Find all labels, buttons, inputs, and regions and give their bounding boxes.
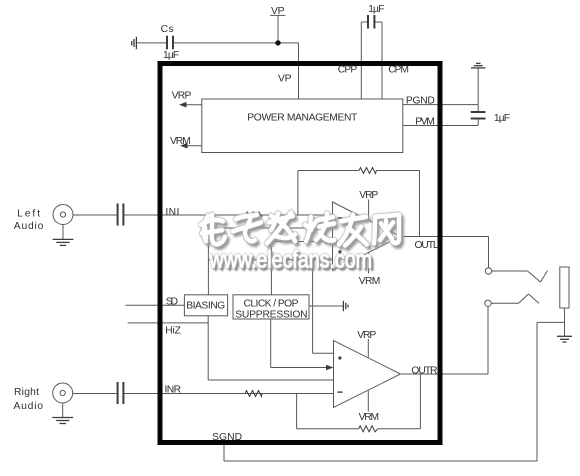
svg-text:Audio: Audio [14, 221, 44, 232]
svg-text:1µF: 1µF [368, 4, 384, 15]
svg-text:1µF: 1µF [494, 113, 510, 124]
svg-text:SUPPRESSION: SUPPRESSION [235, 309, 307, 320]
svg-text:VRM: VRM [170, 136, 191, 147]
svg-text:Right: Right [14, 387, 39, 398]
svg-text:www.elecfans.com: www.elecfans.com [209, 247, 372, 274]
svg-text:SD: SD [166, 297, 178, 308]
svg-text:PGND: PGND [406, 96, 435, 107]
svg-text:CPM: CPM [388, 64, 409, 75]
svg-text:OUTL: OUTL [415, 240, 439, 251]
svg-text:Audio: Audio [14, 401, 44, 412]
svg-text:VRM: VRM [359, 412, 380, 423]
svg-text:1µF: 1µF [163, 50, 179, 61]
svg-text:BIASING: BIASING [186, 301, 225, 312]
svg-text:POWER MANAGEMENT: POWER MANAGEMENT [247, 113, 358, 124]
svg-text:VP: VP [271, 6, 285, 17]
svg-text:CPP: CPP [338, 64, 358, 75]
svg-text:VRP: VRP [357, 330, 376, 341]
svg-text:INI: INI [165, 207, 179, 218]
svg-text:CLICK / POP: CLICK / POP [244, 298, 299, 309]
svg-text:INR: INR [165, 384, 182, 395]
svg-text:Left: Left [17, 209, 40, 220]
svg-text:VRP: VRP [359, 190, 378, 201]
svg-text:HiZ: HiZ [165, 325, 181, 336]
svg-text:VRM: VRM [359, 276, 381, 287]
svg-text:PVM: PVM [415, 116, 435, 127]
svg-text:Cs: Cs [161, 24, 174, 35]
svg-text:VRP: VRP [172, 90, 192, 101]
svg-text:OUTR: OUTR [411, 366, 437, 377]
svg-text:VP: VP [278, 73, 292, 84]
svg-text:SGND: SGND [212, 432, 242, 443]
